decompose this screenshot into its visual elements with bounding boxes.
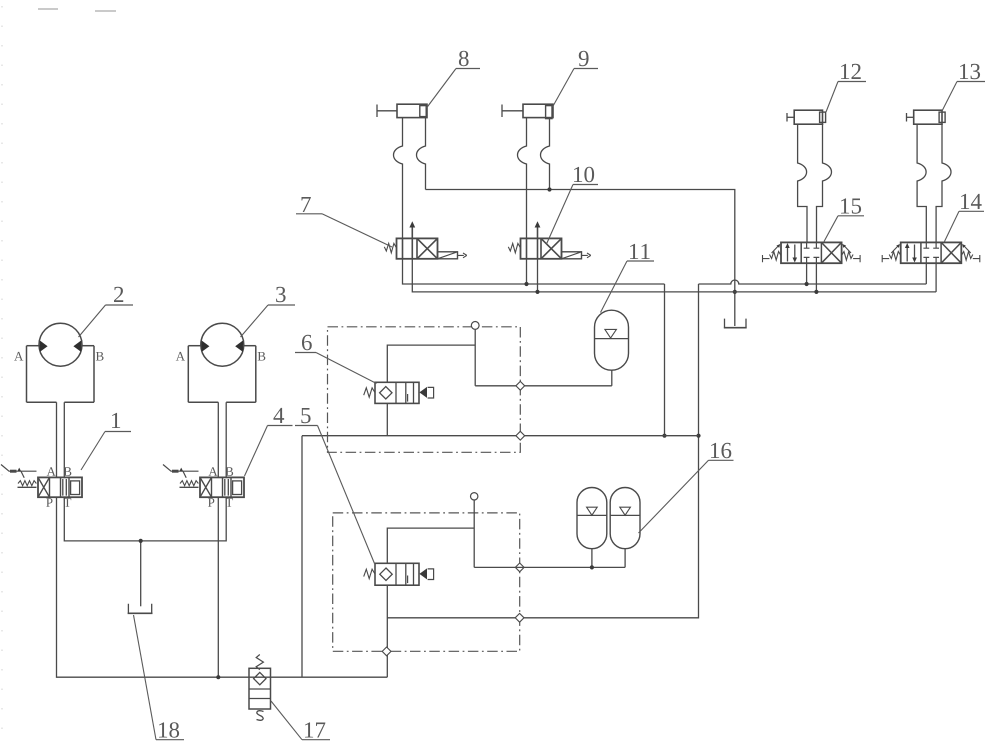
accumulator 16 pair [577,487,640,548]
wire: long mid manifold [302,435,699,437]
junction: valve 10 T on return line 2 [535,290,539,294]
wire: branch to tank 18 [140,541,142,606]
wire: right supply line 1 segment with hop over tank drop [699,280,927,284]
wire: valve 4 P drop [217,497,219,677]
valve 10 [508,221,590,259]
label 10 [547,167,599,244]
valve 14 [882,242,980,263]
wire: valve 5 bottom riser to pressure line [386,585,388,677]
label 16 [639,443,734,533]
label 8 [427,51,481,108]
valve 7 [384,221,467,259]
label 11 [601,244,655,313]
label 1 [81,413,131,470]
port diamond on enclosure (accumulator line) [516,381,525,390]
wire: valve 15 P-port drop [806,263,808,284]
port diamond on lower enclosure (bottom riser) [382,647,391,656]
label 7 [296,197,392,247]
wire: spring-chamber manifold to tank drop [426,190,735,327]
wire: valve 14 T-port drop [935,263,937,292]
wire: mid manifold left drop [301,436,303,678]
accumulator 11 [595,310,629,370]
wire: accumulator 16 feed line [474,566,625,568]
valve 4 (manual) [163,465,244,507]
junction: accumulator 16 stem on feed line [590,565,594,569]
wire: valve 1 P to bottom pressure line [57,497,388,677]
wire: valve 14 P-port drop [925,263,927,284]
wire: accumulator 16 stems [592,549,625,568]
label 14 [945,194,985,242]
enclosure (dashed) upper [328,327,521,453]
brake cylinder 8 [377,104,427,238]
label 17 [271,701,330,740]
wire: check block to accumulator 11 [475,385,612,387]
junction: supply riser on mid manifold (left) [662,434,666,438]
hydraulic motor 2 [14,323,103,402]
junction: riser on mid manifold (right) [696,434,700,438]
valve 5 (charge valve) [364,563,434,585]
wire: accumulator 11 stem [611,370,613,386]
wire: motor 2 pipes to valve 1 [57,402,65,477]
port diamond on enclosure (mid manifold) [516,431,525,440]
port diamond on lower enclosure (supply branch) [515,613,524,622]
tank symbol (right, vent) [724,319,747,328]
brake cylinder 13 [907,110,952,242]
junction: valve 15 T on return line 2 [814,290,818,294]
wire: second circuit supply riser [387,284,698,618]
wire: valve 10 T-port drop [537,259,539,292]
brake cylinder 9 [502,104,553,238]
brake cylinder 12 [787,110,832,242]
wire: valve 7 T-port down, return line 2 [412,259,936,292]
wire: valve 15 T-port drop [815,263,817,292]
label 12 [826,64,866,112]
vent circle marker lower [471,493,478,500]
tank 18 symbol [128,604,153,614]
port diamond on lower enclosure (accumulator feed) [515,563,524,572]
label 15 [824,198,864,241]
label 18 [134,615,185,740]
scan artifact top-left dashes [38,9,116,11]
label 3 [241,287,296,337]
wire: T return line valves 1,4 [64,497,226,541]
label 5 [295,408,375,564]
hydraulic motor 3 [176,323,266,402]
enclosure (dashed) lower [333,513,520,651]
label 4 [245,408,293,476]
wire: valve 6 top link [387,345,475,382]
label 6 [295,335,377,384]
valve 6 (charge valve) [364,382,434,403]
junction: valve 10 P on supply line 1 [524,282,528,286]
junction: valve 4 P on bottom pressure line [216,675,220,679]
label 13 [942,64,986,112]
label 9 [553,51,599,107]
junction cylinder 9 to manifold [547,187,551,191]
label 2 [79,287,134,337]
junction: valve 15 P on supply line 1 [805,282,809,286]
junction tank drop on return line [733,290,737,294]
wire: supply riser to mid manifold [664,284,666,436]
scan artifact dotted left edge [1,6,3,740]
wire: circle to check block [474,329,476,386]
valve 15 [763,242,861,263]
wire: valve 7 P-port down to supply line 1 [403,259,665,284]
wire: motor 3 pipes to valve 4 [218,402,226,477]
wire: valve 10 P-port drop [526,259,528,284]
valve 17 (inline check) [249,655,271,721]
wire: valve 5 top link [387,528,474,563]
valve 1 (manual) [1,465,82,507]
wire: valve 6 bottom to mid manifold [386,403,388,435]
wire: circle riser to accumulator feed [473,500,475,567]
vent circle marker upper [471,322,479,330]
junction: tank 18 branch on T line [139,539,143,543]
